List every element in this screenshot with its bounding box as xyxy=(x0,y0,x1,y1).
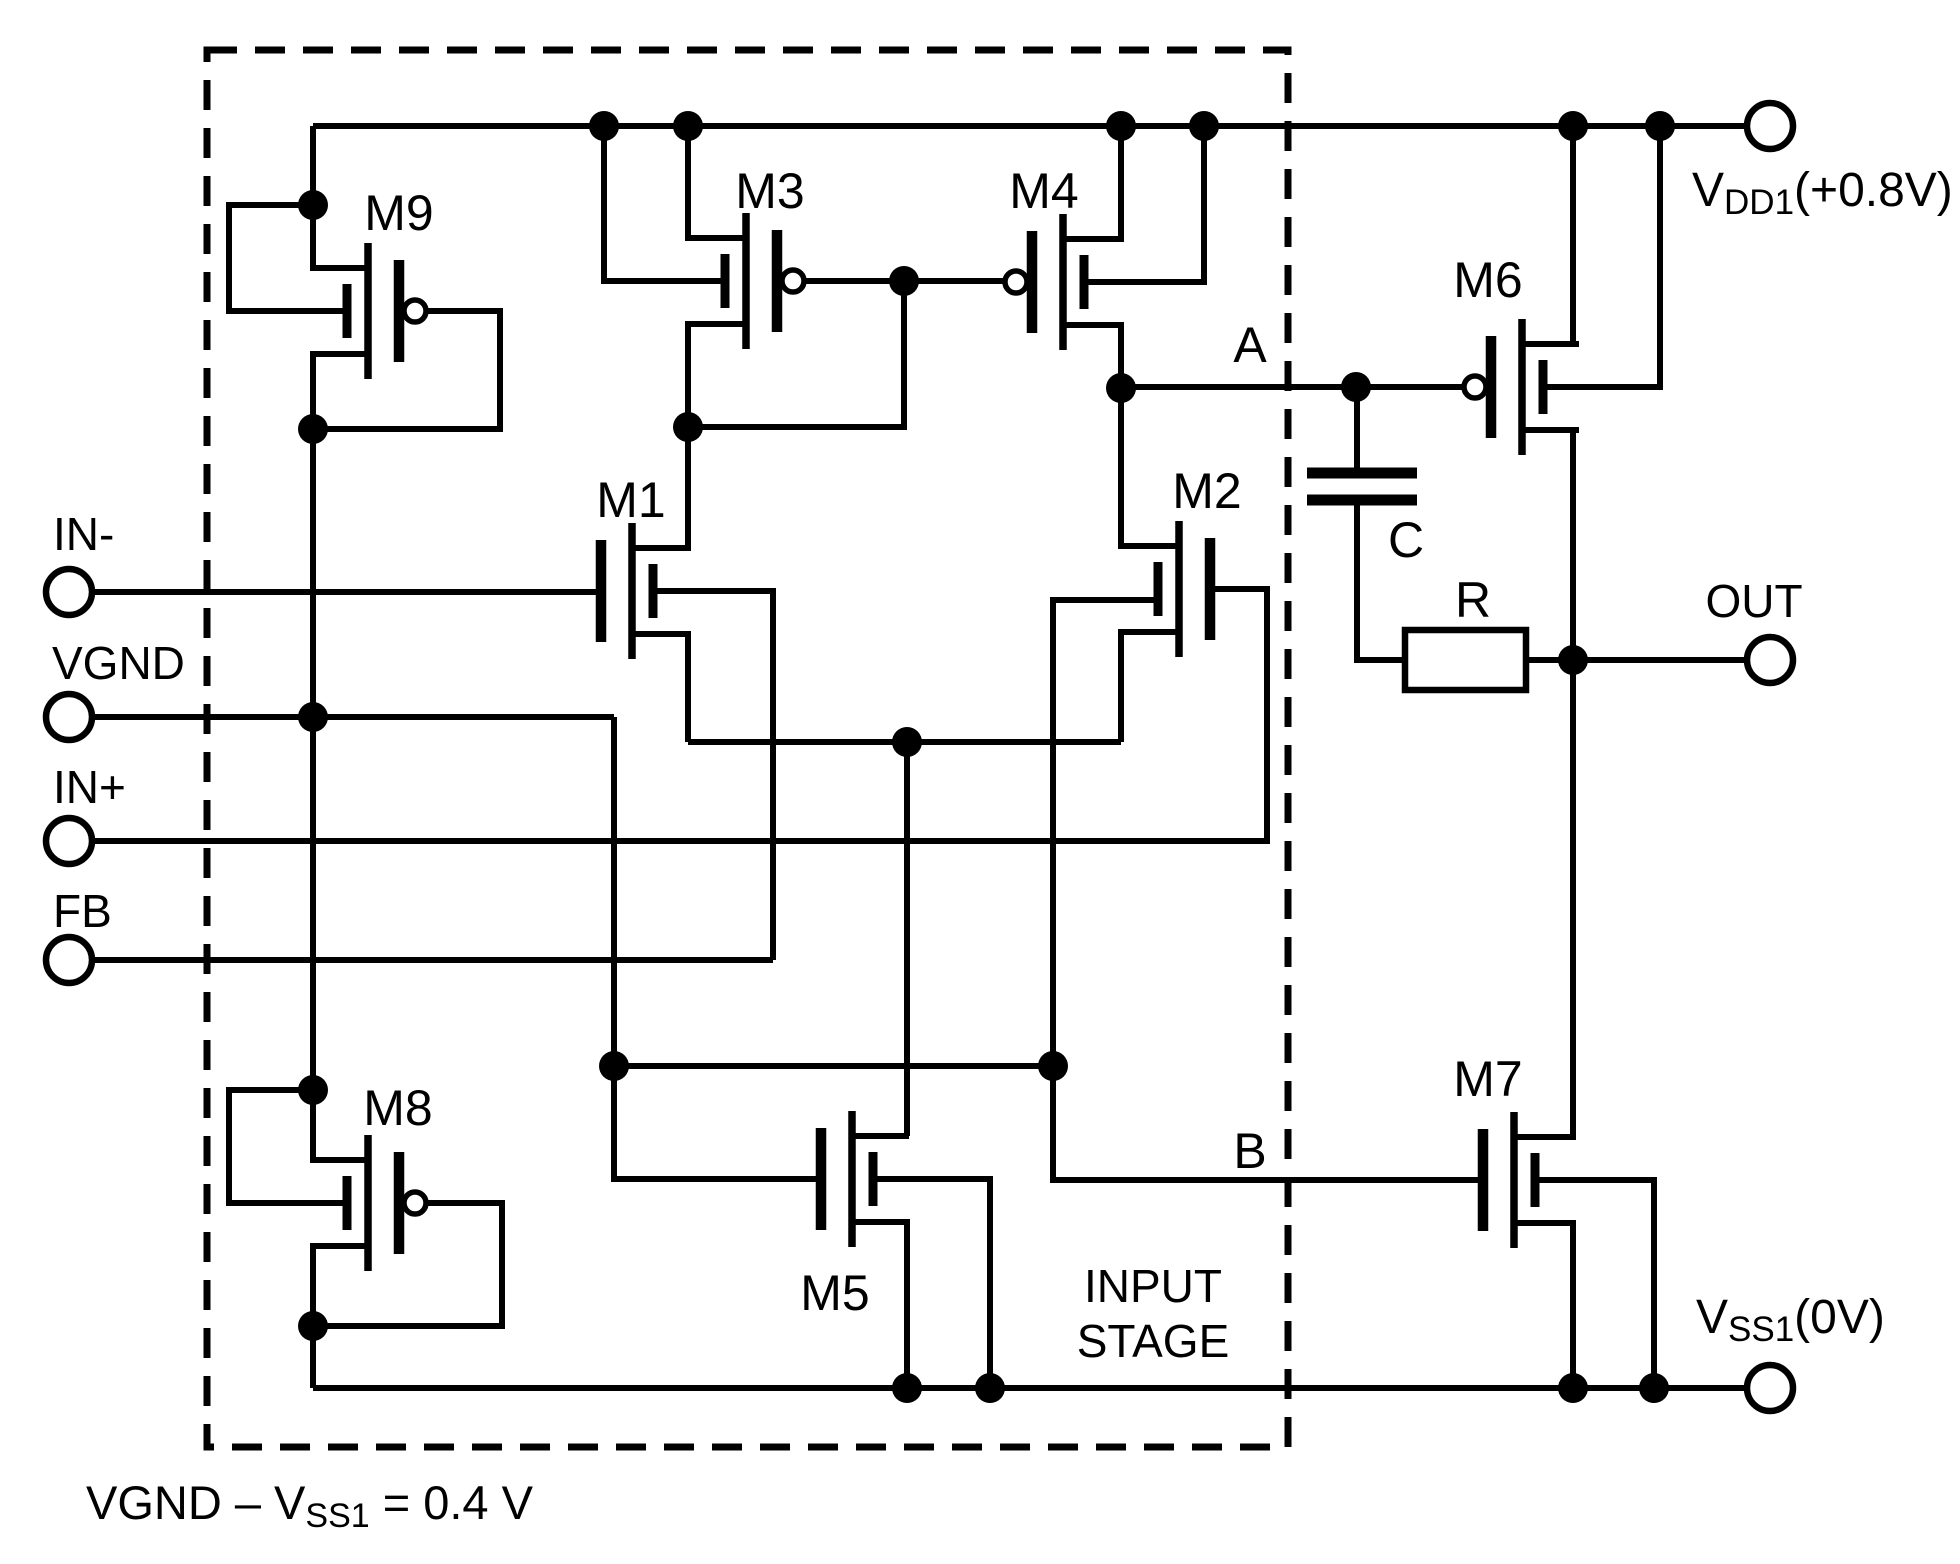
wire M3 source to VDD1 xyxy=(688,126,746,238)
wire VDD1 rail xyxy=(313,123,1747,129)
wire node A xyxy=(1121,384,1464,390)
transistor M3 (PMOS) xyxy=(689,213,804,349)
transistor M1 (NMOS) xyxy=(601,523,689,659)
wire M1 source to tail xyxy=(632,634,688,742)
wire R to OUT node xyxy=(1526,657,1573,663)
svg-text:IN+: IN+ xyxy=(53,761,126,813)
node dot M6 source on VDD1 xyxy=(1558,111,1588,141)
wire M9 source to VDD1 xyxy=(313,126,368,268)
transistor M9 (PMOS) xyxy=(311,243,426,379)
node dot M6 bulk on VDD1 xyxy=(1645,111,1675,141)
node A junction at M4/M2 drains xyxy=(1106,373,1136,403)
svg-text:M2: M2 xyxy=(1172,463,1241,519)
node A junction at compensation cap xyxy=(1341,372,1371,402)
svg-text:M8: M8 xyxy=(363,1080,432,1136)
wire differential pair tail xyxy=(688,739,1121,745)
wire M8 source to VSS1 xyxy=(310,1326,316,1388)
wire M5 gate xyxy=(614,1066,821,1179)
terminal VGND xyxy=(46,694,92,740)
node M9 drain junction xyxy=(298,414,328,444)
node B junction right xyxy=(1038,1051,1068,1081)
wire M2 bulk to node B xyxy=(1053,600,1158,1066)
svg-text:R: R xyxy=(1455,572,1491,628)
wire M4 drain to node A xyxy=(1063,325,1121,388)
wire M7 source to VSS1 xyxy=(1514,1223,1573,1388)
node dot M3 source on VDD1 xyxy=(673,111,703,141)
wire M3 bulk to VDD1 xyxy=(604,126,725,281)
svg-text:C: C xyxy=(1388,512,1424,568)
wire M6 bulk to VDD1 xyxy=(1543,126,1660,387)
node dot M7 source on VSS1 xyxy=(1558,1373,1588,1403)
svg-text:M7: M7 xyxy=(1453,1051,1522,1107)
wire VSS1 rail xyxy=(313,1385,1747,1391)
wire M2 drain to node A xyxy=(1121,388,1179,546)
wire M4 bulk to VDD1 xyxy=(1084,126,1204,282)
wire M2 source to tail xyxy=(1121,632,1179,742)
svg-text:M4: M4 xyxy=(1009,163,1078,219)
transistor M6 (PMOS) xyxy=(1464,319,1579,455)
svg-text:M6: M6 xyxy=(1453,252,1522,308)
svg-text:INPUT: INPUT xyxy=(1084,1260,1222,1312)
node dot M7 bulk on VSS1 xyxy=(1639,1373,1669,1403)
wire VGND input xyxy=(92,714,614,720)
svg-text:FB: FB xyxy=(53,885,112,937)
terminal IN+ xyxy=(46,818,92,864)
node M9 source junction xyxy=(298,190,328,220)
input stage boundary (dashed box) xyxy=(207,50,1288,1447)
wire M9 gate to drain (diode connection) xyxy=(313,311,500,429)
wire M7 gate from node B xyxy=(1053,1066,1483,1180)
wire node B xyxy=(614,1063,1053,1069)
node dot M3 bulk on VDD1 xyxy=(589,111,619,141)
node dot M4 bulk on VDD1 xyxy=(1189,111,1219,141)
wire M1 drain xyxy=(632,427,688,548)
wire M6 source to VDD1 xyxy=(1522,126,1573,344)
terminal FB xyxy=(46,937,92,983)
svg-text:M3: M3 xyxy=(735,163,804,219)
wire M9 bulk to source node xyxy=(229,205,347,311)
wire C bottom lead to R xyxy=(1357,500,1405,660)
transistor M7 (NMOS) xyxy=(1483,1112,1571,1248)
wire M3 gate to M4 gate xyxy=(804,278,1005,284)
transistor M2 (NMOS) xyxy=(1122,521,1210,657)
wire M6 drain to OUT xyxy=(1522,430,1573,660)
wire C top lead xyxy=(1354,387,1360,473)
wire M5 drain to tail xyxy=(904,742,910,1136)
svg-text:M5: M5 xyxy=(800,1265,869,1321)
svg-text:M9: M9 xyxy=(364,185,433,241)
wire M7 bulk to VSS1 xyxy=(1535,1180,1654,1388)
capacitor C xyxy=(1307,473,1417,500)
wire M8 drain from bus xyxy=(313,1090,368,1160)
terminal VSS1 xyxy=(1747,1365,1793,1411)
wire M4 source to VDD1 xyxy=(1063,126,1121,239)
wire M5 source to VSS1 xyxy=(852,1222,907,1388)
svg-text:VGND: VGND xyxy=(52,637,185,689)
node VGND junction xyxy=(298,702,328,732)
transistor M5 (NMOS) xyxy=(821,1111,909,1247)
svg-text:OUT: OUT xyxy=(1705,575,1802,627)
node B junction left xyxy=(599,1051,629,1081)
terminal VDD1 xyxy=(1747,103,1793,149)
svg-text:B: B xyxy=(1233,1123,1266,1179)
transistor M4 (PMOS) xyxy=(1005,214,1120,350)
node M8 drain junction xyxy=(298,1075,328,1105)
wire M9 drain xyxy=(313,354,368,429)
node M8 source junction xyxy=(298,1311,328,1341)
node OUT junction xyxy=(1558,645,1588,675)
transistor M8 (PMOS) xyxy=(311,1135,426,1271)
node M3 gate junction xyxy=(889,266,919,296)
wire OUT xyxy=(1573,657,1747,663)
wire M8 source xyxy=(313,1246,368,1326)
node M3/M1 drain junction xyxy=(673,412,703,442)
wire FB input xyxy=(92,957,773,963)
wire VGND to M5/M7 gate bias xyxy=(611,717,617,1066)
wire M9 drain / VGND / M8 drain bus xyxy=(310,429,316,1090)
wire M3 gate-drain diode loop xyxy=(688,281,904,427)
node dot M5 source on VSS1 xyxy=(892,1373,922,1403)
wire M3 drain xyxy=(688,324,746,427)
terminal OUT xyxy=(1747,637,1793,683)
svg-text:M1: M1 xyxy=(596,472,665,528)
svg-text:IN-: IN- xyxy=(53,508,114,560)
svg-text:STAGE: STAGE xyxy=(1077,1315,1230,1367)
wire M5 bulk to VSS1 xyxy=(873,1179,990,1388)
resistor R xyxy=(1405,630,1526,690)
wire M7 drain to OUT xyxy=(1514,660,1573,1137)
node dot M4 source on VDD1 xyxy=(1106,111,1136,141)
wire IN+ to M2 gate xyxy=(92,589,1267,841)
wire M8 gate to source (diode connection) xyxy=(313,1203,502,1326)
node tail junction xyxy=(892,727,922,757)
wire IN- to M1 gate xyxy=(92,589,601,595)
svg-text:A: A xyxy=(1233,317,1267,373)
wire M8 bulk to drain node xyxy=(229,1090,347,1203)
terminal IN- xyxy=(46,569,92,615)
wire M1 bulk to FB xyxy=(653,591,773,960)
node dot M5 bulk on VSS1 xyxy=(975,1373,1005,1403)
